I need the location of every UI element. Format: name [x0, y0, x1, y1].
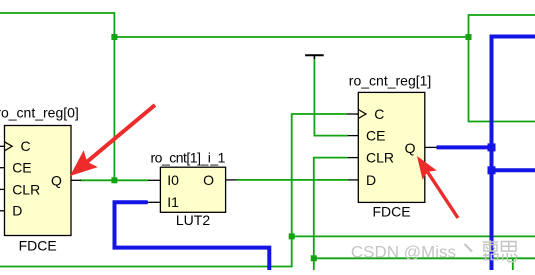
svg-text:Q: Q — [405, 140, 416, 156]
wire LUT2 I1 stub — [148, 201, 161, 203]
wire LUT2 O stub — [226, 179, 237, 181]
node bus junction mid — [488, 166, 496, 174]
svg-text:D: D — [12, 203, 22, 219]
gate U2 ro_cnt[1]_i_1 LUT2 — [160, 167, 225, 212]
node junction J2 — [466, 34, 472, 40]
svg-text:D: D — [366, 172, 376, 188]
wire FDCE1 CE stub — [348, 135, 359, 137]
svg-text:I1: I1 — [167, 194, 179, 210]
wire bus from LUT2 I1 (blue) — [115, 202, 270, 270]
wire FDCE1 Q stub — [425, 146, 437, 148]
svg-text:ro_cnt_reg[1]: ro_cnt_reg[1] — [349, 72, 432, 88]
node junction B — [311, 255, 317, 261]
wire FDCE1 Q to bus (blue) — [437, 145, 492, 149]
node bus junction Q1 — [488, 143, 496, 151]
svg-text:C: C — [21, 138, 31, 154]
wire FDCE0 Q to LUT2 I0 — [81, 179, 149, 181]
wire J2 down to right edge — [469, 37, 535, 122]
svg-text:CLR: CLR — [366, 150, 394, 166]
svg-text:I0: I0 — [167, 172, 179, 188]
wire FDCE0 Q stub — [71, 179, 81, 181]
wire FDCE0 input pin stubs — [0, 145, 5, 147]
wire const1 to FDCE1 CE — [314, 59, 348, 136]
annotation red arrow 2 pointing at FDCE1 Q — [417, 156, 458, 218]
annotation red arrow 1 pointing at FDCE0 Q — [70, 105, 155, 176]
wire FDCE1 CLR stub — [348, 157, 359, 159]
wire J1 to J2 horizontal — [114, 36, 468, 38]
wire LUT2 O to FDCE1 D — [236, 179, 348, 181]
svg-text:LUT2: LUT2 — [176, 212, 210, 228]
svg-text:FDCE: FDCE — [372, 204, 410, 220]
wire FDCE1 C net — [292, 114, 347, 236]
power const1 symbol — [305, 55, 324, 59]
wire LUT2 I0 stub — [148, 179, 160, 181]
wire FDCE1 C stub — [347, 113, 359, 115]
svg-text:CSDN @Miss: CSDN @Miss — [351, 243, 456, 262]
svg-text:O: O — [203, 172, 214, 188]
wire CLR net drop at right — [512, 258, 514, 270]
wire net ro_cnt_reg[0]/Q top-left run — [0, 13, 114, 180]
label watermark CSDN @Miss丶露思 — [351, 240, 517, 261]
svg-text:FDCE: FDCE — [19, 237, 57, 253]
wire FDCE1 CLR net — [314, 158, 348, 270]
svg-text:ro_cnt[1]_i_1: ro_cnt[1]_i_1 — [151, 150, 226, 166]
flip-flop U1 ro_cnt_reg[0] FDCE — [5, 126, 72, 236]
svg-text:C: C — [374, 106, 384, 122]
wire bus branch to right edge (blue) — [492, 168, 535, 172]
svg-text:Q: Q — [51, 172, 62, 188]
flip-flop U3 ro_cnt_reg[1] FDCE — [358, 92, 425, 202]
svg-text:CE: CE — [12, 160, 31, 176]
svg-text:ro_cnt_reg[0]: ro_cnt_reg[0] — [0, 105, 79, 121]
node junction J3 on Q0 net — [111, 177, 117, 183]
node junction A — [289, 233, 295, 239]
wire J2 up to right edge — [469, 15, 535, 37]
node junction J1 — [111, 34, 117, 40]
wire bus right vertical (blue) — [492, 37, 535, 271]
wire FDCE1 D stub — [348, 179, 358, 181]
svg-text:CE: CE — [366, 128, 385, 144]
svg-text:CLR: CLR — [12, 181, 40, 197]
